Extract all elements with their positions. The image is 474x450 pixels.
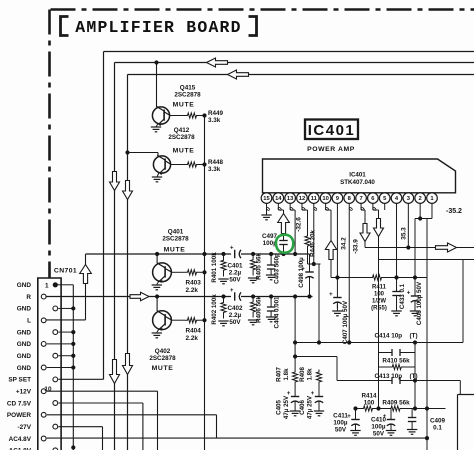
svg-text:C410: C410 (371, 417, 387, 424)
svg-text:100: 100 (364, 400, 375, 407)
node R449-bus (202, 113, 206, 117)
capacitor C410 (390, 409, 392, 420)
svg-text:2SC2878: 2SC2878 (168, 134, 195, 141)
svg-text:C498 100µ: C498 100µ (298, 257, 305, 288)
svg-text:2SC2878: 2SC2878 (162, 236, 189, 243)
svg-text:SP SET: SP SET (8, 377, 31, 384)
box bottom right (458, 394, 474, 396)
signal arrow right y247 (436, 243, 457, 252)
wire R407 column (294, 297, 296, 370)
wire pin4 drop (396, 210, 398, 291)
highlight green circle on C497 (276, 235, 293, 253)
signal arrow left on rail 2 (207, 58, 228, 67)
signal arrow left on rail 3 (228, 70, 249, 79)
signal arrow up pin10 (325, 241, 336, 260)
wire gnd pin 7 (58, 355, 73, 357)
svg-text:R405 56k: R405 56k (256, 253, 263, 280)
svg-text:50V: 50V (229, 319, 241, 326)
node rail277-C433 (394, 275, 398, 279)
ground R406 (248, 319, 258, 321)
signal arrow up pin14 (278, 214, 290, 234)
svg-text:GND: GND (17, 365, 32, 372)
svg-text:R409 56k: R409 56k (382, 400, 410, 407)
svg-text:3.3k: 3.3k (208, 166, 221, 173)
wire POWER (47, 414, 217, 416)
wire R403 to bus (200, 271, 205, 273)
node line1-Q401 base (155, 252, 159, 256)
node C497-line1 (281, 252, 285, 256)
resistor R446 (305, 232, 310, 251)
signal arrow down on bus x114 upper (110, 172, 120, 191)
svg-text:-35.2: -35.2 (446, 208, 462, 215)
wire R446 bottom (307, 251, 309, 265)
wire pin14 jog (278, 209, 283, 211)
wire pin13 to line1 (290, 209, 295, 211)
resistor R407 (293, 370, 298, 385)
ground C410 (390, 425, 392, 431)
node pin13-line1 (293, 252, 297, 256)
capacitor C401 (series) (234, 250, 236, 258)
svg-text:MUTE: MUTE (173, 147, 195, 154)
svg-text:35.3: 35.3 (400, 227, 407, 240)
svg-text:C413 10p: C413 10p (375, 373, 403, 380)
resistor R401 (221, 254, 226, 277)
wire rail408 right (405, 408, 446, 410)
wire Q402 collector (172, 319, 185, 321)
svg-text:1.8k: 1.8k (283, 368, 290, 381)
svg-text:R449: R449 (208, 110, 224, 117)
node pin11 junction (312, 262, 316, 266)
svg-text:C403 560p: C403 560p (274, 253, 281, 284)
IC401 pins 15..1 (261, 193, 272, 204)
resistor R402 (221, 297, 226, 319)
capacitor C409 (411, 409, 413, 418)
svg-text:MUTE: MUTE (164, 247, 186, 254)
wire R407 tap (295, 356, 337, 358)
svg-text:R402 100k: R402 100k (211, 294, 218, 325)
svg-text:1/2W: 1/2W (372, 299, 386, 305)
wire top rail 3 (128, 74, 474, 76)
capacitor C404 (270, 297, 272, 308)
ground Q412 (157, 173, 159, 178)
connector CN701 box (38, 278, 61, 450)
svg-text:2: 2 (419, 196, 422, 202)
svg-text:+12V: +12V (16, 388, 32, 395)
title AMPLIFIER BOARD (61, 17, 69, 36)
svg-text:Q401: Q401 (168, 229, 184, 236)
ground C404 (270, 311, 272, 317)
svg-text:1: 1 (45, 282, 49, 289)
node rail408 x414.5 (413, 406, 417, 410)
node line342 x414.5 (413, 340, 417, 344)
node line2-R402 (221, 294, 225, 298)
resistor R406 (251, 297, 256, 318)
svg-text:C408 100µ 50V: C408 100µ 50V (416, 281, 423, 325)
node rail277-C407 (335, 275, 339, 279)
svg-text:R407: R407 (276, 367, 283, 382)
svg-text:Q415: Q415 (180, 85, 196, 92)
svg-text:7: 7 (359, 196, 362, 202)
transistor Q402 (153, 311, 172, 330)
svg-text:14: 14 (275, 196, 282, 202)
svg-text:(T): (T) (410, 333, 418, 340)
svg-text:-27V: -27V (18, 424, 32, 431)
transistor Q415 (152, 107, 169, 124)
resistor R448 (185, 162, 200, 167)
svg-text:GND: GND (17, 341, 32, 348)
svg-text:C404 0.001: C404 0.001 (274, 296, 281, 329)
wire SP SET (58, 378, 103, 380)
wire AC4.8V long (47, 437, 427, 439)
wire CD7.5V (58, 402, 142, 404)
svg-text:POWER AMP: POWER AMP (307, 146, 355, 153)
node line1-R405 (251, 252, 255, 256)
svg-text:(RS5): (RS5) (371, 306, 387, 312)
wire R404 to bus (200, 319, 205, 321)
svg-text:2.2µ: 2.2µ (229, 312, 242, 319)
svg-text:2.2µ: 2.2µ (229, 270, 242, 277)
svg-text:1.8k: 1.8k (307, 368, 314, 381)
svg-text:50V: 50V (229, 277, 241, 284)
node pin3-y247 (406, 245, 410, 249)
ground C407 (336, 304, 338, 311)
wire top rail 1 (104, 51, 474, 53)
node R403-bus (202, 270, 206, 274)
wire R448 to bus (200, 164, 205, 166)
wire y247 to right (365, 247, 436, 249)
capacitor C498 (309, 254, 311, 272)
wire Q412 collector (171, 164, 185, 166)
wire pin11 drop (313, 210, 315, 264)
wire pin12 jog (302, 209, 308, 211)
svg-text:C401: C401 (227, 263, 243, 270)
svg-text:2SC2878: 2SC2878 (149, 355, 176, 362)
svg-text:Q412: Q412 (174, 127, 190, 134)
wire gnd pin 8 (47, 367, 74, 369)
svg-text:C407 100µ 50V: C407 100µ 50V (342, 300, 349, 344)
svg-text:R448: R448 (208, 159, 224, 166)
capacitor C414 branch (379, 352, 393, 354)
wire pin1 drop (431, 210, 433, 219)
svg-text:GND: GND (17, 282, 32, 289)
svg-text:R408: R408 (299, 367, 306, 382)
node pin8-line342 (347, 340, 351, 344)
signal arrow down on bus x127 lower (123, 354, 133, 375)
node AC4.8V-x426.5 (425, 436, 429, 440)
ground R405 (248, 277, 258, 279)
wire -27V (58, 426, 102, 428)
wire pin3 drop (407, 210, 409, 248)
wire rail 277 (331, 277, 369, 279)
wire top rail 2 (115, 62, 474, 64)
node line2-R407col (293, 294, 297, 298)
capacitor C413 branch (337, 380, 392, 382)
wire rail 408 (356, 408, 360, 410)
svg-text:2.2k: 2.2k (186, 335, 199, 342)
capacitor C407 (333, 297, 341, 299)
wire +12V (47, 390, 158, 392)
svg-text:-32.6: -32.6 (296, 217, 303, 232)
node C413-x414.5 (413, 378, 417, 382)
IC401 pin stubs (431, 203, 433, 210)
resistor R409 (387, 406, 405, 411)
node R407 tap (293, 354, 297, 358)
svg-text:3.3k: 3.3k (208, 117, 221, 124)
ground C409 (411, 422, 413, 430)
signal arrow down on bus x127 upper (123, 181, 133, 200)
svg-text:GND: GND (17, 329, 32, 336)
resistor R408 (316, 370, 321, 385)
node line2-Q402 base (155, 294, 159, 298)
wire pin10 jog (326, 209, 331, 211)
svg-text:50V: 50V (335, 427, 347, 434)
svg-text:12: 12 (299, 196, 305, 202)
wire pin8 drop (348, 210, 350, 343)
capacitor C403 (270, 254, 272, 265)
svg-text:R401 100k: R401 100k (211, 252, 218, 283)
svg-text:R414: R414 (361, 393, 377, 400)
wire supply drop x426.5 (426, 219, 428, 450)
ground C405 (294, 402, 296, 411)
svg-text:0.1: 0.1 (433, 425, 442, 432)
svg-text:C409: C409 (430, 418, 446, 425)
svg-text:R406 56k: R406 56k (256, 296, 263, 323)
wire ladder rail x378 (378, 260, 380, 409)
svg-text:34.2: 34.2 (340, 237, 347, 250)
svg-text:+: + (329, 292, 333, 298)
svg-text:2SC2878: 2SC2878 (174, 92, 201, 99)
wire Q412 base feed (128, 152, 159, 154)
svg-text:AMPLIFIER BOARD: AMPLIFIER BOARD (75, 18, 242, 37)
transistor Q401 (153, 263, 172, 282)
ground C433 (396, 296, 398, 311)
svg-text:100µ: 100µ (333, 420, 348, 427)
ground Q415 (156, 124, 158, 128)
svg-text:C411: C411 (333, 413, 348, 420)
capacitor C406 (318, 385, 320, 397)
wire pin1 to gnd bus (58, 284, 74, 286)
wire L feed (46, 319, 86, 321)
wire Q402 base feed (156, 297, 158, 312)
wire gnd pin 6 (47, 343, 74, 345)
node mute bus-line1 (202, 252, 206, 256)
wire R449 to bus (200, 115, 205, 117)
svg-text:IC401: IC401 (349, 172, 366, 179)
wire line342 (295, 342, 463, 344)
ground Q401 (157, 281, 159, 285)
svg-text:10: 10 (44, 386, 52, 393)
svg-text:+: + (407, 291, 411, 297)
svg-text:CN701: CN701 (54, 268, 77, 275)
signal arrow down pin7 (360, 224, 370, 242)
wire corner up x462.5 (462, 260, 464, 343)
svg-text:MUTE: MUTE (152, 365, 174, 372)
svg-text:C433 0.1: C433 0.1 (399, 283, 406, 309)
resistor R410 branch (379, 364, 416, 369)
wire pin9 drop (336, 210, 338, 298)
resistor R405 (251, 254, 256, 276)
svg-text:IC401: IC401 (308, 122, 356, 139)
wire gnd pin 3 (58, 307, 73, 309)
signal arrow down on bus x114 lower (110, 360, 120, 384)
ground C411 (355, 425, 357, 431)
ground C406 (318, 402, 320, 411)
ground R402 (218, 320, 228, 322)
signal arrow up L feed (80, 265, 92, 284)
board boundary dash-dot top (51, 8, 474, 11)
wire pin6 jog (373, 209, 379, 211)
svg-text:R411: R411 (372, 285, 387, 291)
board boundary dash-dot left (48, 10, 51, 278)
svg-text:11: 11 (311, 196, 318, 202)
node pin2 supply (418, 216, 422, 220)
wire rail408 mid (377, 408, 387, 410)
svg-text:15: 15 (263, 196, 270, 202)
resistor R403 (185, 270, 200, 275)
node line342 x295 (293, 340, 297, 344)
capacitor C402 (series) (234, 292, 236, 300)
svg-text:C405: C405 (276, 400, 283, 415)
ground C403 (270, 269, 272, 275)
wire Q415 base feed (156, 63, 158, 108)
wire Q401 collector (172, 271, 185, 273)
wire y259 to right (379, 259, 474, 261)
node rail408 x355 (353, 406, 357, 410)
resistor R404 (185, 318, 200, 323)
node line1-R401 (221, 252, 225, 256)
svg-text:CD 7.5V: CD 7.5V (7, 400, 32, 407)
svg-text:GND: GND (17, 353, 32, 360)
svg-text:L: L (27, 318, 31, 325)
signal arrow down pin6 (374, 219, 384, 237)
resistor R414 (360, 406, 377, 411)
resistor R449 (185, 113, 200, 118)
svg-text:R: R (26, 294, 31, 301)
IC401 body (263, 159, 456, 193)
capacitor C411 (355, 418, 357, 420)
svg-text:POWER: POWER (7, 412, 32, 419)
svg-text:R404: R404 (186, 328, 202, 335)
svg-text:Q402: Q402 (155, 348, 171, 355)
wire supply jog y218 (415, 218, 432, 220)
ground Q402 (157, 329, 159, 333)
node line2-C404 (269, 294, 273, 298)
svg-text:C402: C402 (227, 305, 243, 312)
node rail408 x426.5 (425, 406, 429, 410)
node line342 x318.5 (317, 340, 321, 344)
svg-text:10: 10 (322, 196, 328, 202)
svg-text:AC4.8V: AC4.8V (9, 436, 32, 443)
transistor Q412 (153, 156, 170, 173)
wire gnd pin 5 (58, 331, 73, 333)
capacitor C405 (294, 385, 296, 397)
node R448-bus (202, 162, 206, 166)
svg-text:-33.9: -33.9 (352, 239, 359, 254)
resistor R411 (369, 275, 386, 280)
wire y380 to box (415, 380, 460, 382)
wire pin7 jog (361, 209, 365, 211)
ground pin15 (266, 210, 268, 215)
ground R401 (218, 278, 228, 280)
svg-text:50V: 50V (373, 431, 385, 438)
ground C408 (414, 302, 416, 311)
wire C408 feed (414, 219, 416, 297)
node line1-C403 (269, 252, 273, 256)
svg-text:C406: C406 (299, 400, 306, 415)
node rail2-Q415 base (154, 60, 158, 64)
svg-text:+: + (230, 246, 234, 252)
svg-text:100: 100 (374, 292, 385, 298)
capacitor C433 (392, 291, 400, 293)
wire signal line upper (86, 253, 232, 255)
wire pin2 drop (419, 210, 421, 219)
node line2-R406 (251, 294, 255, 298)
wire mute bus x204 (204, 116, 206, 450)
node R404-bus (202, 318, 206, 322)
node rail3-Q412 base (125, 150, 129, 154)
signal arrow right on lower line (130, 292, 149, 300)
svg-text:13: 13 (287, 196, 294, 202)
node rail277-C408 (413, 275, 417, 279)
svg-text:C414 10p: C414 10p (375, 333, 403, 340)
wire ladder rail x414.5 (414, 343, 416, 409)
capacitor C408 (411, 295, 419, 297)
node rail408 x378 (376, 406, 380, 410)
wire Q401 base feed (156, 254, 158, 263)
svg-text:100µ: 100µ (371, 424, 386, 431)
svg-text:+: + (230, 288, 234, 294)
svg-text:2.2k: 2.2k (186, 287, 199, 294)
svg-text:R446 20k: R446 20k (310, 230, 317, 257)
wire signal line lower (46, 296, 231, 298)
capacitor C497 (279, 240, 287, 242)
IC401 designator box (305, 120, 358, 140)
svg-text:R410 56k: R410 56k (382, 358, 410, 365)
svg-text:MUTE: MUTE (173, 101, 195, 108)
svg-text:GND: GND (17, 306, 32, 313)
svg-text:47µ 25V: 47µ 25V (283, 395, 290, 419)
svg-text:47µ 25V: 47µ 25V (307, 395, 314, 419)
wire ladder drop x318.5 (318, 264, 320, 343)
node gnd bus bottom (71, 445, 75, 449)
wire Q415 collector (170, 115, 185, 117)
svg-text:R403: R403 (186, 280, 202, 287)
svg-text:C497: C497 (262, 233, 278, 240)
svg-text:STK407.040: STK407.040 (340, 179, 375, 186)
